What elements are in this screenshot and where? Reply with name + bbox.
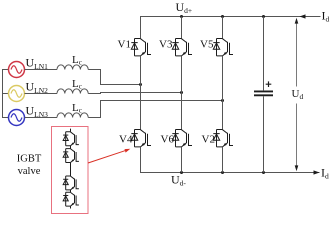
svg-text:V4: V4 xyxy=(119,134,133,146)
label V6 xyxy=(161,134,175,146)
wire leg1 middle xyxy=(140,56,142,130)
wire phase1 to bridge xyxy=(88,70,140,85)
IGBT V6 xyxy=(172,130,192,147)
label Id top xyxy=(322,9,330,24)
label plus xyxy=(266,81,272,87)
IGBT V5 xyxy=(213,39,233,56)
label ULN1 xyxy=(26,56,49,72)
svg-text:V2: V2 xyxy=(202,134,215,146)
node top rail capacitor xyxy=(262,15,265,18)
label V2 xyxy=(202,134,215,146)
ac source ULN2 xyxy=(9,86,25,102)
svg-text:V1: V1 xyxy=(118,39,131,51)
svg-text:Lc: Lc xyxy=(72,78,82,91)
IGBT valve cell 3 xyxy=(63,176,79,190)
wire leg3 upper xyxy=(222,17,224,39)
wire leg3 lower xyxy=(222,147,224,173)
node top rail leg3 xyxy=(221,15,224,18)
IGBT V4 xyxy=(131,130,151,147)
node phase3 leg3 xyxy=(221,99,224,102)
svg-text:ULN2: ULN2 xyxy=(26,80,49,96)
node bottom rail leg2 xyxy=(180,171,183,174)
current arrow Id top xyxy=(300,14,306,18)
label ULN3 xyxy=(26,104,49,120)
svg-text:V3: V3 xyxy=(159,39,173,51)
wire capacitor branch upper xyxy=(263,17,265,91)
svg-text:Ud-: Ud- xyxy=(171,173,186,188)
svg-text:V5: V5 xyxy=(200,39,214,51)
IGBT valve cell 2 xyxy=(63,149,79,163)
svg-text:valve: valve xyxy=(18,166,41,177)
voltage arrow Ud xyxy=(295,18,299,171)
label V5 xyxy=(200,39,214,51)
wire valve link 3 xyxy=(70,190,72,192)
wire phase3 to bridge xyxy=(88,101,222,118)
ac source ULN3 xyxy=(9,110,25,126)
current arrow Id bottom xyxy=(314,170,320,174)
svg-text:Id: Id xyxy=(321,166,329,181)
wire capacitor branch lower xyxy=(263,96,265,172)
IGBT valve cell 4 xyxy=(63,192,79,206)
IGBT valve cell 1 xyxy=(63,132,79,146)
wire leg3 middle xyxy=(222,56,224,130)
wire top rail Ud+ xyxy=(140,16,321,18)
wire leg2 middle xyxy=(181,56,183,130)
label IGBT valve xyxy=(17,154,42,178)
wire leg1 upper xyxy=(140,17,142,39)
label Ud+ xyxy=(176,0,193,15)
wire valve link 1 xyxy=(70,146,72,149)
wire phase1 source to inductor xyxy=(25,69,58,71)
red box IGBT valve xyxy=(52,127,89,214)
wire bottom rail Ud- xyxy=(140,172,320,174)
wire phase3 source to inductor xyxy=(25,117,58,119)
IGBT V1 xyxy=(131,39,151,56)
svg-text:Ud: Ud xyxy=(292,88,304,101)
label Ud xyxy=(292,88,304,101)
svg-text:V6: V6 xyxy=(161,134,175,146)
label Lc2 xyxy=(72,78,82,91)
wire leg2 upper xyxy=(181,17,183,39)
node bottom rail capacitor xyxy=(262,171,265,174)
node top rail leg2 xyxy=(180,15,183,18)
svg-text:Id: Id xyxy=(322,9,330,24)
callout arrow to V4 xyxy=(88,149,130,163)
wire valve stub top xyxy=(70,129,72,132)
wire leg2 lower xyxy=(181,147,183,173)
label Lc1 xyxy=(72,54,82,67)
wire leg1 lower xyxy=(140,147,142,173)
svg-text:ULN3: ULN3 xyxy=(26,104,49,120)
label Id bottom xyxy=(321,166,329,181)
node phase2 leg2 xyxy=(180,91,183,94)
inductor Lc phase1 xyxy=(57,65,88,70)
svg-text:Lc: Lc xyxy=(72,102,82,115)
label ULN2 xyxy=(26,80,49,96)
wire valve link 2 xyxy=(70,163,72,176)
label V3 xyxy=(159,39,173,51)
label V1 xyxy=(118,39,131,51)
wire phase2 source to inductor xyxy=(25,93,58,95)
capacitor Cd xyxy=(254,91,273,95)
label V4 xyxy=(119,134,133,146)
svg-text:ULN1: ULN1 xyxy=(26,56,49,72)
label Lc3 xyxy=(72,102,82,115)
wire valve stub bottom xyxy=(70,206,72,208)
svg-text:IGBT: IGBT xyxy=(17,154,42,165)
svg-text:Ud+: Ud+ xyxy=(176,0,193,15)
inductor Lc phase3 xyxy=(57,113,88,118)
node bottom rail leg3 xyxy=(221,171,224,174)
label Ud- xyxy=(171,173,186,188)
IGBT V3 xyxy=(172,39,192,56)
wire phase2 to bridge xyxy=(88,93,181,94)
inductor Lc phase2 xyxy=(57,89,88,94)
wire neutral bus xyxy=(2,70,9,118)
svg-text:Lc: Lc xyxy=(72,54,82,67)
node phase1 leg1 xyxy=(139,83,142,86)
IGBT V2 xyxy=(213,130,233,147)
ac source ULN1 xyxy=(9,62,25,78)
